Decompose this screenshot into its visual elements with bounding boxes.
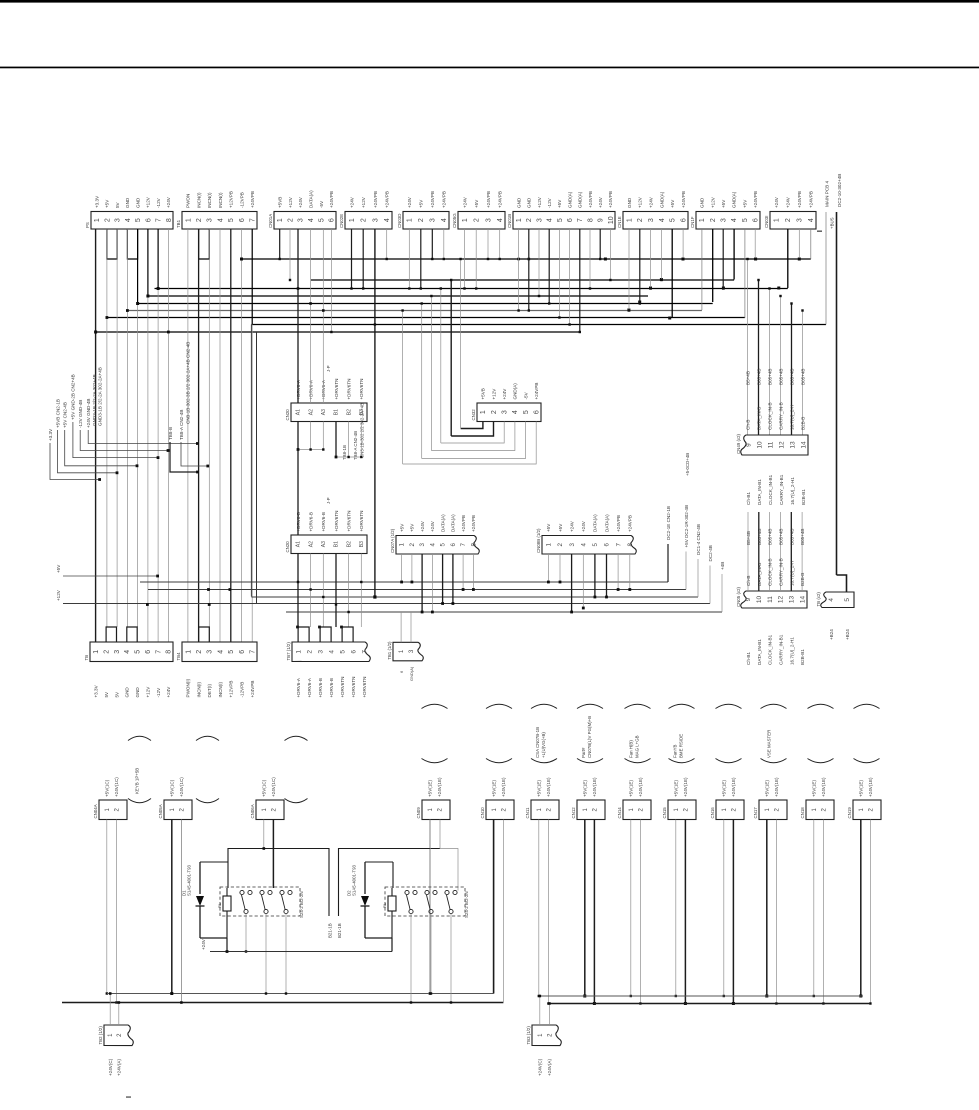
svg-text:3: 3 [485,218,492,222]
svg-text:CARRY_IN-B1: CARRY_IN-B1 [779,474,784,505]
svg-text:+12V: +12V [145,686,150,698]
svg-text:1: 1 [462,218,469,222]
svg-text:4: 4 [430,543,437,547]
svg-text:16.7(U)_2-H: 16.7(U)_2-H [789,561,794,586]
connector CN49 (x2) [741,435,808,455]
bus wire B6 y=310 [127,310,702,312]
svg-text:Ch-B1: Ch-B1 [746,652,751,665]
connector TB (x2) [821,592,854,608]
svg-text:16.7(U)_2-H: 16.7(U)_2-H [790,405,795,430]
svg-text:GND: GND [135,197,140,208]
svg-text:3: 3 [536,218,543,222]
svg-text:A1: A1 [296,541,302,547]
cable capsule for CN15 [669,704,695,708]
svg-text:2: 2 [287,218,294,222]
bus wire B5 y=304 [137,303,712,305]
svg-text:4: 4 [217,218,224,222]
mid bus M3 end stub and net label [697,559,699,597]
svg-text:+DRV6TN: +DRV6TN [351,677,356,698]
svg-text:B2: B2 [346,541,352,547]
svg-text:-5V: -5V [319,200,324,208]
connector TB1 [182,212,257,230]
svg-text:+5V: +5V [419,199,424,208]
bus junction dot [660,278,663,281]
svg-text:+DRV6-B: +DRV6-B [308,512,313,531]
svg-text:CN1F: CN1F [690,216,695,228]
CN08B pin5 drop [594,554,596,597]
drop wire CN14 pin2 [639,820,641,1004]
svg-text:16.7(U)_2-H1: 16.7(U)_2-H1 [789,637,794,665]
svg-text:CLOCK_IN-B1: CLOCK_IN-B1 [768,634,773,665]
svg-text:CLOCK_IN-B: CLOCK_IN-B [768,402,773,430]
nested loop wire CN32 pin4 [431,422,515,451]
svg-text:+DRV6TN: +DRV6TN [334,379,339,400]
bus corner riser wire [744,229,746,318]
svg-text:+DRV6TN: +DRV6TN [334,511,339,532]
svg-text:+24V: +24V [598,196,603,208]
svg-text:3: 3 [114,650,121,654]
middle bus wire M3 y=597 [251,596,698,598]
svg-text:B05+4B: B05+4B [800,529,805,545]
svg-text:CN07B(L)V PG(M)+B: CN07B(L)V PG(M)+B [587,716,592,758]
mid bus M2 end stub and net label [685,552,687,590]
svg-text:RL: RL [382,902,387,908]
svg-text:+5V(1E): +5V(1E) [583,780,588,797]
svg-text:B05+4B: B05+4B [757,369,762,385]
svg-text:B05+4B: B05+4B [790,369,795,385]
drop wire CN12 pin1 [584,820,586,997]
nested loop wire CN32 pin2 [451,422,493,437]
cup jumpers under PS pins 2-3 [107,229,117,259]
main pcb wire corner into bus7 [825,212,827,325]
CN07A pin4 drop [431,554,433,612]
svg-text:6: 6 [681,218,688,222]
staple above TB4 [199,627,210,642]
svg-text:CARRY_IN-B: CARRY_IN-B [779,558,784,586]
svg-text:GND: GND [125,687,130,698]
svg-text:+5V GND-2B CN2+4B: +5V GND-2B CN2+4B [71,374,76,420]
svg-text:INCN(I): INCN(I) [196,192,201,208]
relay contact common drop 4 [410,914,412,1003]
svg-text:GND(A): GND(A) [409,666,414,681]
wire CN03D pin4 drop [443,229,445,259]
svg-text:13: 13 [789,596,796,604]
svg-text:2: 2 [361,218,368,222]
svg-text:+24V: +24V [774,196,779,208]
svg-text:MAIN PCB 4: MAIN PCB 4 [825,181,830,207]
svg-text:+DRV6TN: +DRV6TN [340,677,345,698]
svg-text:CN11: CN11 [525,807,530,818]
svg-text:4: 4 [580,543,587,547]
relay feed wires from units 2-3 [171,820,173,994]
drop wire CN18 pin2 [822,820,824,1004]
svg-text:5: 5 [844,598,851,602]
connector CN11 [531,800,559,820]
wire feeding CN49 pin13 [791,304,793,436]
svg-text:11: 11 [767,441,774,448]
svg-text:+24VPB: +24VPB [329,191,334,208]
dots at TB7 staple tops [296,626,299,629]
connector CN09 [422,800,450,820]
middle bus wire M1 y=582 [140,581,668,583]
wire CN01A pin2 drop [289,229,291,280]
svg-text:5: 5 [228,650,235,654]
svg-text:+24V: +24V [420,520,425,532]
svg-text:4: 4 [328,650,335,654]
svg-text:+5V: +5V [721,199,726,208]
svg-text:2: 2 [418,218,425,222]
svg-text:+5V: +5V [558,523,563,532]
connector CN05 (x2) [741,591,807,608]
drop wire CN15 pin1 [675,820,677,997]
svg-text:+24VPB: +24VPB [616,515,621,532]
svg-text:+24VPB: +24VPB [373,191,378,208]
svg-text:GND(A): GND(A) [659,191,664,208]
diode-coil loop D2 [365,937,392,939]
svg-text:+DRV6TN: +DRV6TN [346,511,351,532]
svg-text:+24VPB: +24VPB [809,191,814,208]
relay contact common drop 1 [245,914,247,952]
connector TB3 (1/2) [532,1025,561,1046]
wire CN03D pin3 drop [431,229,433,259]
connector CN1E [623,212,688,230]
svg-text:S1A5-4001-T93: S1A5-4001-T93 [187,864,192,896]
svg-text:A1: A1 [296,409,302,415]
svg-text:5V: 5V [104,691,109,698]
svg-text:B3: B3 [359,541,365,547]
svg-text:+24V: +24V [166,686,171,698]
wire CN01B pin8 drop [589,229,591,289]
wire CN1F pin6 drop [754,229,756,259]
bus corner riser wire [701,229,703,310]
svg-text:+5V: +5V [56,564,61,573]
svg-text:4: 4 [659,218,666,222]
svg-text:+12V: +12V [288,196,293,208]
connector CN20 [291,403,367,422]
wire CN01B pin1 drop [518,229,520,311]
middle bus wire M2 y=590 [148,589,686,591]
svg-text:+DRV6-B: +DRV6-B [318,678,323,697]
svg-text:+5V CN2-4B: +5V CN2-4B [63,402,68,428]
svg-text:6: 6 [145,650,152,654]
long drop wire TB1 pin5 [230,229,232,642]
svg-text:J-P: J-P [326,365,331,372]
drop wire CN14 pin1 [630,820,632,997]
long drop wire PS pin8 [167,229,169,642]
svg-text:CN3-1B-302 2/2 302-2A+4B: CN3-1B-302 2/2 302-2A+4B [359,403,364,458]
svg-text:+24V(C): +24V(C) [538,1058,543,1076]
CN08B pin7 drop [617,554,619,590]
svg-text:1: 1 [349,218,356,222]
drop wire CN11 pin2 [547,820,549,1004]
svg-text:6: 6 [329,218,336,222]
svg-text:2: 2 [104,650,111,654]
svg-text:A2: A2 [308,409,314,415]
cup jumpers under PS pins 4-5 [127,229,137,259]
bus junction dot [798,258,801,261]
svg-text:11: 11 [767,596,774,603]
cable capsule for CN14 [625,704,651,708]
svg-text:CSA CN07B-1B: CSA CN07B-1B [535,727,540,758]
drop wire CN04A pin1 [106,820,108,994]
svg-text:FanYB: FanYB [673,745,678,758]
svg-text:+DRV6TN: +DRV6TN [362,677,367,698]
svg-text:+5V(1E): +5V(1E) [537,780,542,797]
svg-text:3: 3 [298,218,305,222]
svg-text:2: 2 [637,218,644,222]
bus wire B1 y=259 [241,258,811,260]
svg-text:CN03I: CN03I [764,216,769,228]
svg-text:CN17: CN17 [753,807,758,819]
wire feeding CN05 pin11 [769,512,771,591]
wire feeding CN05 pin9 [747,512,749,591]
staples above TB7 [298,627,309,642]
svg-text:+5VB: +5VB [278,197,283,208]
svg-text:DATA(A): DATA(A) [593,514,598,532]
svg-text:+24VPB: +24VPB [797,191,802,208]
svg-text:7: 7 [156,218,163,222]
svg-text:5: 5 [523,410,530,414]
svg-text:+12V: +12V [491,388,496,400]
mid bus M1 end stub and net label [667,544,669,582]
contact 3 of D1 [280,890,284,894]
connector CN19 [853,800,881,820]
svg-text:DATA(A): DATA(A) [451,514,456,532]
relay contact block D2 [385,887,465,916]
svg-text:+24V(A): +24V(A) [547,1059,552,1076]
bus corner riser wire [712,229,714,302]
svg-text:3: 3 [419,543,426,547]
CN08B pin3 drop [571,554,573,612]
CN07A pin3 drop [421,554,423,612]
svg-text:CN07A (1/2): CN07A (1/2) [390,528,395,553]
contact 1 of D1 [240,890,244,894]
svg-text:+12V: +12V [56,589,61,601]
svg-text:1: 1 [407,218,414,222]
wire feeding CN49 pin10 [758,280,760,435]
svg-text:CN32: CN32 [471,409,476,421]
svg-text:1: 1 [626,218,633,222]
CN07A pin1 drop [401,554,403,582]
svg-text:3: 3 [569,543,576,547]
svg-text:B05+4B: B05+4B [779,369,784,385]
svg-text:-12V: -12V [547,197,552,208]
wire CN02E pin2 drop [362,229,364,289]
svg-text:4: 4 [308,218,315,222]
CN08B pin1 drop [547,554,549,582]
svg-text:7: 7 [250,650,257,654]
svg-text:+DRV6TN: +DRV6TN [359,379,364,400]
contact 2 of D1 [260,890,264,894]
svg-text:DC2-10-302+4B: DC2-10-302+4B [837,174,842,207]
wires into TB1 small [400,612,402,642]
svg-text:CN15: CN15 [662,807,667,819]
cable capsule for CN10 [486,704,512,708]
svg-text:A3: A3 [321,541,327,547]
svg-text:1: 1 [277,218,284,222]
svg-text:-12VPB: -12VPB [239,682,244,698]
drop wire CN16 pin2 [732,820,734,1004]
svg-text:14: 14 [800,441,807,449]
long drop wire TB1 pin7 [251,229,253,642]
svg-text:TB1 (1/2): TB1 (1/2) [387,641,392,660]
bus junction dot [722,287,725,290]
svg-text:+24V(1E): +24V(1E) [501,777,506,797]
bus junction dot [638,301,641,304]
svg-text:DC2-4B: DC2-4B [708,545,713,561]
svg-text:+5V: +5V [742,199,747,208]
relay contact common drop 5 [430,914,432,994]
svg-text:B5+4B: B5+4B [746,531,751,545]
wires into bottom-left connector [109,994,111,1026]
svg-text:+DRV6-B: +DRV6-B [329,678,334,697]
wire CN01B pin10 drop [609,229,611,280]
drop wire CN04A pin2 [115,820,117,1003]
wire feeding CN05 pin12 [780,512,782,591]
long drop wire TB1 pin6 [241,229,243,642]
svg-text:7: 7 [361,650,368,654]
bus junction dot [649,287,652,290]
contact 2 of D2 [425,890,429,894]
CN07A pin2 drop [411,554,413,582]
svg-text:6: 6 [350,650,357,654]
CN08B pin4 drop [582,554,584,608]
svg-text:INCN(I): INCN(I) [207,192,212,208]
wire feeding CN05 pin13 [790,512,792,591]
rect wire left edge 2 [256,332,258,604]
svg-text:+24V(1E): +24V(1E) [774,777,779,797]
mid bus M4 end stub and net label [709,566,711,604]
CN20 upper stub pin A3 [322,422,324,450]
wire CN01B pin6 drop [569,229,571,325]
connector CN32 [477,403,541,422]
svg-text:BME RSIDE: BME RSIDE [679,734,684,758]
contact 3 of D2 [445,890,449,894]
bus junction dot [682,258,685,261]
CN20 lower drop pin A1 [297,554,299,628]
svg-text:5: 5 [135,650,142,654]
svg-text:B1: B1 [334,541,340,547]
svg-text:6: 6 [145,218,152,222]
connector TB4 [182,642,257,662]
CN01B p1 p2 dots on bus0 [517,258,520,261]
bus junction dot [604,258,607,261]
wire CN01B pin5 drop [558,229,560,318]
cable capsule for CN18 [808,704,834,708]
svg-text:2: 2 [491,410,498,414]
svg-text:B2B-B1: B2B-B1 [800,649,805,665]
svg-text:7: 7 [250,218,257,222]
svg-text:3: 3 [317,650,324,654]
wire feeding CN49 pin12 [780,296,782,435]
relay coil D2 [388,896,396,911]
svg-text:+24V: +24V [648,196,653,208]
left bottom bus lower (dark) [62,1002,503,1004]
right bottom bus lower (dark) [549,1003,870,1005]
relay contact common drop 6 [450,914,452,1003]
svg-text:CN05G: CN05G [452,213,457,228]
relay contact block D1 [220,887,300,916]
middle bus wire M4 y=604 [63,603,710,605]
svg-text:6: 6 [534,410,541,414]
staples above TB [106,627,116,642]
svg-text:TB2 (1/2): TB2 (1/2) [98,1026,103,1045]
svg-text:+24V: +24V [786,196,791,208]
wire U4 pin1 to bottom bus [429,820,431,994]
svg-text:+5V(1C): +5V(1C) [170,779,175,797]
svg-text:8: 8 [627,543,634,547]
svg-text:+B24: +B24 [845,629,850,640]
svg-text:+24V: +24V [462,196,467,208]
svg-text:DC2-1E CN2-1B: DC2-1E CN2-1B [666,506,671,540]
svg-text:B21-1B: B21-1B [337,923,342,938]
drop wire CN05A pin2 [180,820,182,1003]
svg-text:DATA_IN-B1: DATA_IN-B1 [757,479,762,505]
connector CN01B [513,212,615,230]
corner wire U5 pin2 into left bus [502,820,504,1003]
svg-text:+12V: +12V [638,196,643,208]
svg-text:+12V: +12V [710,196,715,208]
svg-text:5: 5 [670,218,677,222]
svg-text:+24V: +24V [581,520,586,532]
cable capsule for CN12 [577,704,603,708]
tiny page mark [126,1097,131,1098]
connector PS [91,212,173,230]
cable capsule for CN06A [285,736,308,740]
svg-text:+24VPB: +24VPB [753,191,758,208]
svg-text:+24VPB: +24VPB [471,515,476,532]
svg-text:CN01B: CN01B [507,214,512,228]
connector CN16 [716,800,744,820]
svg-text:6: 6 [753,218,760,222]
svg-text:+24V(1E): +24V(1E) [683,777,688,797]
svg-text:CN10: CN10 [480,807,485,819]
svg-text:12: 12 [778,596,785,604]
svg-text:+DRV6-B: +DRV6-B [321,512,326,531]
svg-text:+5V: +5V [474,199,479,208]
svg-text:9: 9 [598,218,605,222]
svg-text:+12VPB: +12VPB [229,681,234,698]
cable capsule for CN19 [854,704,880,708]
svg-text:+24VPB: +24VPB [430,191,435,208]
svg-text:CLOCK_IN-B: CLOCK_IN-B [768,558,773,586]
svg-text:-5V: -5V [523,391,528,399]
wire CN01B pin9 drop [599,229,601,259]
wire dc2 vertical dark [836,212,838,575]
svg-text:6: 6 [604,543,611,547]
svg-text:INCN(I): INCN(I) [196,681,201,697]
svg-text:+24V: +24V [430,520,435,532]
svg-text:GND(A): GND(A) [732,191,737,208]
connector CN15 [668,800,696,820]
svg-text:7: 7 [577,218,584,222]
svg-text:1: 1 [295,650,302,654]
svg-text:+24V(1E): +24V(1E) [638,777,643,797]
svg-text:5: 5 [228,218,235,222]
svg-text:CN20: CN20 [285,541,290,553]
svg-text:GND(A): GND(A) [513,383,518,400]
svg-text:4: 4 [497,218,504,222]
mid bus M5 end stub and net label [721,574,723,612]
svg-text:7: 7 [460,543,467,547]
svg-text:TB8-1B: TB8-1B [342,445,347,460]
svg-text:7: 7 [155,650,162,654]
svg-text:4: 4 [731,218,738,222]
wire CN1E pin3 drop [650,229,652,289]
svg-text:+5V: +5V [399,523,404,532]
svg-text:B2B-B: B2B-B [801,417,806,430]
svg-text:GND: GND [700,197,705,208]
